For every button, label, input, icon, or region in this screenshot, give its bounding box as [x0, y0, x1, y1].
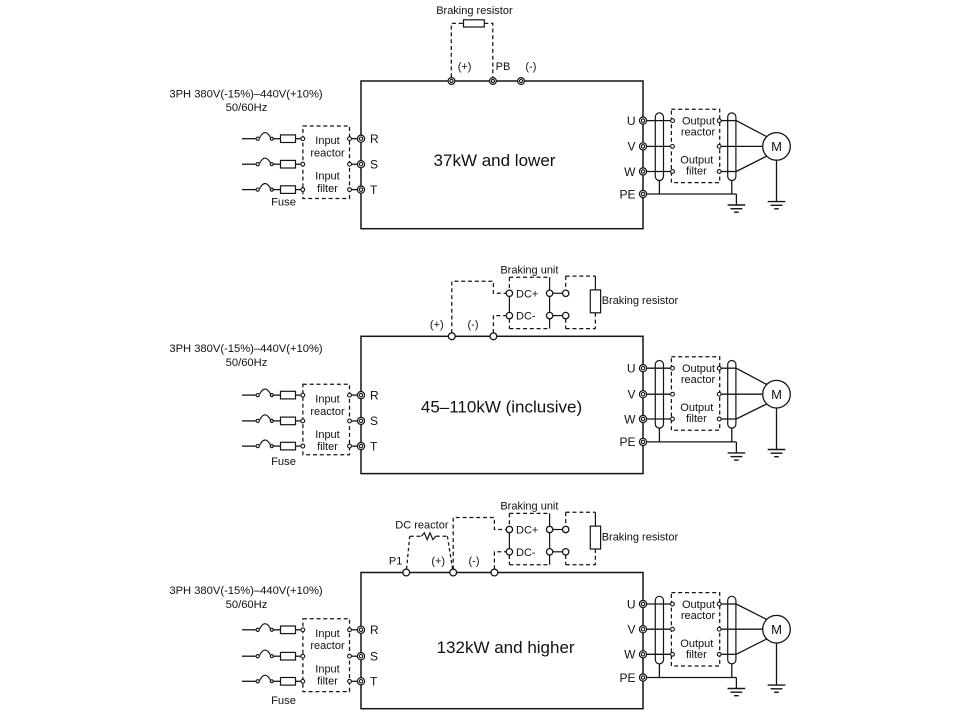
- wire PE bus (section 3): [647, 677, 737, 679]
- node output box right U (section 3): [717, 602, 721, 606]
- label Output reactor (section 2): [681, 363, 716, 386]
- svg-text:R: R: [370, 388, 379, 402]
- breaker contact left phase R (section 1): [256, 137, 259, 140]
- node reactor output phase R (section 3): [348, 628, 352, 632]
- wire reactor-to-terminal T (section 3): [351, 680, 357, 682]
- fuse phase R (section 2): [281, 391, 296, 399]
- braking resistor dashed box (section 3): [566, 512, 596, 565]
- dashed wire (-) to DC- (section 2): [493, 316, 506, 334]
- dashed wire (-) to DC- (section 3): [494, 552, 506, 570]
- wire reactor-to-terminal S (section 1): [351, 163, 357, 165]
- node output box left V (section 2): [671, 392, 675, 396]
- node output box right V (section 2): [717, 392, 721, 396]
- node braking unit DC- out (section 2): [546, 312, 552, 318]
- svg-text:filter: filter: [686, 166, 707, 178]
- braking resistor (section 2): [590, 290, 600, 313]
- fuse phase T (section 3): [281, 678, 296, 686]
- wire breaker-to-fuse phase R (section 1): [273, 138, 280, 140]
- svg-text:3PH 380V(-15%)–440V(+10%): 3PH 380V(-15%)–440V(+10%): [169, 343, 323, 355]
- svg-text:(-): (-): [469, 555, 480, 567]
- breaker blade arc phase T (section 1): [260, 183, 271, 188]
- wire W terminal to output reactor (section 1): [647, 171, 671, 173]
- wire breaker-to-fuse phase T (section 3): [273, 680, 280, 682]
- breaker contact right phase S (section 1): [270, 163, 273, 166]
- svg-text:reactor: reactor: [681, 610, 716, 622]
- terminal PE (section 2): [639, 438, 646, 445]
- breaker contact left phase T (section 2): [256, 445, 259, 448]
- shielded cable 1 (section 2): [655, 361, 663, 429]
- fuse phase S (section 1): [281, 160, 296, 168]
- wire supply phase S (section 2): [242, 420, 256, 422]
- svg-text:(-): (-): [468, 319, 479, 331]
- node output box right W (section 3): [717, 652, 721, 656]
- braking unit dashed box (section 3): [509, 513, 549, 564]
- wire cable 2 shield to PE (section 3): [731, 664, 733, 678]
- wire supply phase T (section 2): [242, 445, 256, 447]
- wire V output to motor (section 1): [721, 145, 763, 147]
- wire breaker-to-fuse phase R (section 2): [273, 394, 280, 396]
- wire reactor-to-terminal R (section 2): [351, 394, 357, 396]
- inverter box (section 2): [361, 336, 643, 473]
- breaker contact left phase R (section 3): [256, 628, 259, 631]
- wire fuse-to-reactor phase S (section 2): [296, 420, 302, 422]
- label Input reactor (section 1): [310, 135, 345, 159]
- wire V output to motor (section 2): [721, 393, 763, 395]
- label Output filter (section 2): [680, 402, 713, 425]
- node reactor input phase S (section 1): [301, 162, 305, 166]
- breaker blade arc phase S (section 2): [260, 415, 271, 420]
- wire diagonal W to motor (section 2): [736, 404, 767, 419]
- svg-text:PE: PE: [619, 187, 635, 201]
- svg-text:reactor: reactor: [681, 127, 716, 139]
- label Input filter (section 1): [315, 171, 339, 195]
- wire W output to cable 2 (section 1): [721, 171, 736, 173]
- svg-text:Input: Input: [315, 628, 339, 640]
- svg-text:T: T: [370, 439, 378, 453]
- fuse phase S (section 3): [281, 652, 296, 660]
- shielded cable 1 (section 1): [655, 113, 663, 181]
- breaker blade arc phase T (section 2): [260, 440, 271, 445]
- svg-text:filter: filter: [317, 183, 338, 195]
- label Output reactor (section 3): [681, 599, 716, 622]
- node reactor output phase S (section 1): [348, 162, 352, 166]
- wire fuse-to-reactor phase T (section 1): [296, 189, 302, 191]
- breaker contact left phase S (section 1): [256, 163, 259, 166]
- terminal U (section 1): [639, 117, 646, 124]
- node output box right U (section 2): [717, 366, 721, 370]
- node output box left W (section 1): [671, 170, 675, 174]
- svg-text:R: R: [370, 132, 379, 146]
- solid bus DC+ to DC- (section 3): [508, 533, 510, 549]
- svg-text:M: M: [771, 387, 782, 402]
- label Input filter (section 2): [315, 429, 339, 453]
- node reactor output phase S (section 3): [348, 654, 352, 658]
- breaker blade arc phase R (section 1): [260, 133, 271, 138]
- svg-text:W: W: [624, 165, 636, 179]
- braking unit right bus (section 3): [549, 513, 551, 564]
- node output box left U (section 1): [671, 119, 675, 123]
- node reactor output phase S (section 2): [348, 419, 352, 423]
- terminal R (section 2): [357, 392, 364, 399]
- wire breaker-to-fuse phase T (section 2): [273, 445, 280, 447]
- wire cable 2 shield to PE (section 1): [731, 181, 733, 195]
- wire supply phase R (section 2): [242, 394, 256, 396]
- svg-text:PB: PB: [496, 61, 511, 73]
- svg-text:DC+: DC+: [516, 525, 538, 537]
- svg-text:Fuse: Fuse: [271, 196, 296, 208]
- wire supply phase S (section 3): [242, 655, 256, 657]
- wire U terminal to output reactor (section 3): [647, 603, 671, 605]
- svg-text:Braking resistor: Braking resistor: [602, 295, 679, 307]
- solid bus DC+ to DC- (section 2): [508, 297, 510, 313]
- node braking unit DC- out (section 3): [546, 549, 552, 555]
- wire diagonal W to motor (section 3): [736, 639, 767, 654]
- terminal (-) (section 2): [490, 333, 497, 340]
- wire diagonal U to motor (section 1): [736, 121, 767, 137]
- svg-text:3PH 380V(-15%)–440V(+10%): 3PH 380V(-15%)–440V(+10%): [169, 89, 323, 101]
- wire fuse-to-reactor phase S (section 1): [296, 163, 302, 165]
- breaker blade arc phase T (section 3): [260, 675, 271, 680]
- node DC+ (section 3): [506, 526, 512, 532]
- svg-text:Input: Input: [315, 663, 339, 675]
- terminal PE (section 1): [639, 190, 646, 197]
- terminal R (section 3): [357, 626, 364, 633]
- svg-text:W: W: [624, 412, 636, 426]
- breaker contact left phase T (section 1): [256, 188, 259, 191]
- wire U output to cable 2 (section 3): [721, 603, 736, 605]
- svg-text:U: U: [627, 597, 636, 611]
- wire supply phase R (section 3): [242, 629, 256, 631]
- motor M (section 3): [763, 615, 791, 643]
- wire supply phase S (section 1): [242, 163, 256, 165]
- svg-text:3PH 380V(-15%)–440V(+10%): 3PH 380V(-15%)–440V(+10%): [169, 585, 323, 597]
- terminal R (section 1): [357, 135, 364, 142]
- node reactor input phase R (section 3): [301, 628, 305, 632]
- wire V terminal to output reactor (section 1): [647, 145, 671, 147]
- node output box left U (section 2): [671, 366, 675, 370]
- wire DC+ link (section 3): [553, 529, 563, 531]
- svg-text:50/60Hz: 50/60Hz: [226, 357, 268, 369]
- node braking unit DC+ out (section 2): [546, 290, 552, 296]
- wire supply phase R (section 1): [242, 138, 256, 140]
- terminal PE (section 3): [639, 674, 646, 681]
- wire DC+ link (section 2): [553, 292, 563, 294]
- terminal (-) (section 1): [518, 78, 525, 85]
- svg-text:37kW and lower: 37kW and lower: [434, 151, 556, 170]
- svg-text:(+): (+): [430, 319, 444, 331]
- wire motor to ground (section 1): [776, 160, 778, 201]
- node reactor output phase T (section 3): [348, 679, 352, 683]
- wire DC- link (section 2): [553, 315, 563, 317]
- wire W terminal to output reactor (section 3): [647, 653, 671, 655]
- breaker contact right phase T (section 3): [270, 680, 273, 683]
- wire U terminal to output reactor (section 1): [647, 120, 671, 122]
- input reactor / input filter dashed box (section 3): [303, 619, 350, 692]
- dashed wire (+) to DC+ (section 2): [452, 281, 506, 333]
- shielded cable 2 (section 3): [728, 596, 736, 664]
- wire fuse-to-reactor phase T (section 2): [296, 445, 302, 447]
- dashed wire (+) to braking resistor (section 1): [451, 23, 463, 77]
- node output box right V (section 1): [717, 145, 721, 149]
- node output box left U (section 3): [671, 602, 675, 606]
- braking resistor dashed box (section 2): [566, 276, 596, 329]
- wire reactor-to-terminal R (section 3): [351, 629, 357, 631]
- wire fuse-to-reactor phase R (section 2): [296, 394, 302, 396]
- wire resistor box top to braking resistor (section 3): [594, 512, 596, 526]
- wire diagonal U to motor (section 3): [736, 604, 767, 620]
- wire V terminal to output reactor (section 3): [647, 628, 671, 630]
- wire W terminal to output reactor (section 2): [647, 418, 671, 420]
- wire motor to ground (section 2): [776, 408, 778, 450]
- output reactor / output filter dashed box (section 3): [671, 593, 719, 666]
- breaker contact right phase R (section 1): [270, 137, 273, 140]
- svg-text:Input: Input: [315, 393, 339, 405]
- motor M (section 1): [763, 133, 791, 161]
- wire fuse-to-reactor phase R (section 1): [296, 138, 302, 140]
- wire breaker-to-fuse phase T (section 1): [273, 189, 280, 191]
- ground PE (section 2): [728, 453, 746, 460]
- terminal S (section 1): [357, 161, 364, 168]
- svg-text:DC-: DC-: [516, 547, 536, 559]
- node reactor output phase R (section 1): [348, 137, 352, 141]
- node reactor output phase R (section 2): [348, 393, 352, 397]
- wire fuse-to-reactor phase R (section 3): [296, 629, 302, 631]
- breaker contact right phase T (section 2): [270, 445, 273, 448]
- node output box left V (section 1): [671, 145, 675, 149]
- node output box right U (section 1): [717, 119, 721, 123]
- breaker contact left phase T (section 3): [256, 680, 259, 683]
- breaker contact left phase S (section 2): [256, 419, 259, 422]
- svg-text:filter: filter: [686, 413, 707, 425]
- label Input reactor (section 3): [310, 628, 345, 652]
- svg-text:50/60Hz: 50/60Hz: [226, 599, 268, 611]
- svg-text:Braking unit: Braking unit: [500, 501, 558, 513]
- node reactor output phase T (section 2): [348, 444, 352, 448]
- node DC- (section 3): [506, 549, 512, 555]
- wire reactor-to-terminal S (section 3): [351, 655, 357, 657]
- node reactor output phase T (section 1): [348, 188, 352, 192]
- breaker blade arc phase S (section 1): [260, 158, 271, 163]
- wire U output to cable 2 (section 2): [721, 367, 736, 369]
- terminal T (section 1): [357, 186, 364, 193]
- node reactor input phase T (section 3): [301, 679, 305, 683]
- svg-text:R: R: [370, 623, 379, 637]
- wire PE down to ground (section 1): [735, 194, 737, 205]
- node resistor box DC+ (section 2): [563, 290, 569, 296]
- svg-text:(+): (+): [431, 555, 445, 567]
- node output box left V (section 3): [671, 627, 675, 631]
- inverter box (section 3): [361, 573, 643, 709]
- shielded cable 1 (section 3): [655, 596, 663, 664]
- wire breaker-to-fuse phase S (section 3): [273, 655, 280, 657]
- node output box left W (section 3): [671, 652, 675, 656]
- terminal S (section 3): [357, 653, 364, 660]
- svg-text:Braking resistor: Braking resistor: [436, 5, 513, 17]
- fuse phase R (section 3): [281, 626, 296, 634]
- svg-text:filter: filter: [317, 441, 338, 453]
- wire cable 1 shield to PE (section 1): [658, 181, 660, 195]
- svg-text:filter: filter: [686, 649, 707, 661]
- svg-text:reactor: reactor: [310, 148, 345, 160]
- svg-text:U: U: [627, 362, 636, 376]
- svg-text:DC reactor: DC reactor: [395, 520, 449, 532]
- breaker blade arc phase R (section 3): [260, 624, 271, 629]
- svg-text:PE: PE: [619, 435, 635, 449]
- terminal (+) (section 1): [448, 78, 455, 85]
- svg-text:T: T: [370, 675, 378, 689]
- wire breaker-to-fuse phase S (section 1): [273, 163, 280, 165]
- input reactor / input filter dashed box (section 2): [303, 384, 350, 455]
- breaker contact left phase S (section 3): [256, 655, 259, 658]
- wire cable 1 shield to PE (section 3): [658, 664, 660, 678]
- svg-text:M: M: [771, 622, 782, 637]
- ground motor (section 2): [768, 450, 786, 457]
- svg-text:reactor: reactor: [310, 640, 345, 652]
- node resistor box DC+ (section 3): [563, 526, 569, 532]
- wire diagonal W to motor (section 1): [736, 156, 767, 171]
- wire cable 1 shield to PE (section 2): [658, 428, 660, 442]
- node resistor box DC- (section 3): [563, 549, 569, 555]
- wire cable 2 shield to PE (section 2): [731, 428, 733, 442]
- label Input reactor (section 2): [310, 393, 345, 417]
- inductor DC reactor (section 3): [422, 533, 436, 540]
- motor M (section 2): [763, 380, 791, 408]
- wire U terminal to output reactor (section 2): [647, 367, 671, 369]
- terminal W (section 1): [639, 168, 646, 175]
- fuse phase T (section 2): [281, 442, 296, 450]
- wire supply phase T (section 3): [242, 680, 256, 682]
- fuse phase T (section 1): [281, 186, 296, 194]
- terminal V (section 1): [639, 143, 646, 150]
- svg-text:reactor: reactor: [310, 406, 345, 418]
- wire PE down to ground (section 3): [735, 678, 737, 689]
- label Input filter (section 3): [315, 663, 339, 687]
- fuse phase S (section 2): [281, 417, 296, 425]
- braking resistor (section 1): [464, 20, 485, 27]
- wire PE bus (section 2): [647, 441, 737, 443]
- braking unit right bus (section 2): [549, 277, 551, 328]
- svg-text:DC+: DC+: [516, 288, 538, 300]
- svg-text:Input: Input: [315, 171, 339, 183]
- terminal (+) (section 3): [450, 569, 457, 576]
- svg-text:S: S: [370, 650, 378, 664]
- terminal W (section 3): [639, 651, 646, 658]
- ground PE (section 1): [728, 205, 746, 212]
- label Output filter (section 1): [680, 155, 713, 178]
- node reactor input phase T (section 2): [301, 444, 305, 448]
- svg-text:DC-: DC-: [516, 311, 536, 323]
- node output box right W (section 1): [717, 170, 721, 174]
- svg-text:V: V: [627, 388, 635, 402]
- wire breaker-to-fuse phase S (section 2): [273, 420, 280, 422]
- wire W output to cable 2 (section 3): [721, 653, 736, 655]
- wire resistor box top to braking resistor (section 2): [594, 276, 596, 290]
- svg-text:P1: P1: [389, 556, 402, 568]
- svg-text:T: T: [370, 183, 378, 197]
- svg-text:M: M: [771, 139, 782, 154]
- node braking unit DC+ out (section 3): [546, 526, 552, 532]
- terminal U (section 2): [639, 365, 646, 372]
- svg-text:reactor: reactor: [681, 374, 716, 386]
- wire PE down to ground (section 2): [735, 442, 737, 453]
- svg-text:45–110kW (inclusive): 45–110kW (inclusive): [421, 398, 582, 417]
- svg-text:50/60Hz: 50/60Hz: [226, 102, 268, 114]
- wire V output to motor (section 3): [721, 628, 763, 630]
- terminal PB (section 1): [490, 78, 497, 85]
- output reactor / output filter dashed box (section 2): [671, 357, 719, 430]
- breaker contact right phase S (section 3): [270, 655, 273, 658]
- terminal P1 (section 3): [403, 569, 410, 576]
- terminal U (section 3): [639, 600, 646, 607]
- svg-text:132kW and higher: 132kW and higher: [437, 638, 575, 657]
- svg-text:filter: filter: [317, 676, 338, 688]
- breaker blade arc phase S (section 3): [260, 650, 271, 655]
- shielded cable 2 (section 1): [728, 113, 736, 181]
- svg-text:(+): (+): [458, 61, 472, 73]
- node output box right W (section 2): [717, 417, 721, 421]
- terminal W (section 2): [639, 415, 646, 422]
- wire reactor-to-terminal T (section 2): [351, 445, 357, 447]
- svg-text:S: S: [370, 414, 378, 428]
- node DC+ (section 2): [506, 290, 512, 296]
- breaker blade arc phase R (section 2): [260, 389, 271, 394]
- label Output filter (section 3): [680, 638, 713, 661]
- wire U output to cable 2 (section 1): [721, 120, 736, 122]
- wire W output to cable 2 (section 2): [721, 418, 736, 420]
- input reactor / input filter dashed box (section 1): [303, 126, 350, 199]
- node reactor input phase S (section 3): [301, 654, 305, 658]
- braking unit dashed box (section 2): [509, 277, 549, 328]
- wire PE bus (section 1): [647, 193, 737, 195]
- svg-text:Braking resistor: Braking resistor: [602, 531, 679, 543]
- terminal (-) (section 3): [491, 569, 498, 576]
- ground PE (section 3): [728, 689, 746, 696]
- dashed wire (+) to DC+ (section 3): [453, 518, 506, 570]
- svg-text:Braking unit: Braking unit: [500, 264, 558, 276]
- wire breaker-to-fuse phase R (section 3): [273, 629, 280, 631]
- dashed wire braking resistor to PB (section 1): [484, 23, 493, 77]
- svg-text:PE: PE: [619, 671, 635, 685]
- wire DC- link (section 3): [553, 551, 563, 553]
- node output box left W (section 2): [671, 417, 675, 421]
- wire V terminal to output reactor (section 2): [647, 393, 671, 395]
- terminal S (section 2): [357, 417, 364, 424]
- wire reactor-to-terminal T (section 1): [351, 189, 357, 191]
- shielded cable 2 (section 2): [728, 361, 736, 429]
- wire fuse-to-reactor phase T (section 3): [296, 680, 302, 682]
- wire motor to ground (section 3): [776, 643, 778, 685]
- node DC- (section 2): [506, 312, 512, 318]
- svg-text:S: S: [370, 158, 378, 172]
- breaker contact right phase T (section 1): [270, 188, 273, 191]
- node reactor input phase S (section 2): [301, 419, 305, 423]
- terminal V (section 2): [639, 391, 646, 398]
- svg-text:U: U: [627, 114, 636, 128]
- inverter box (section 1): [361, 81, 643, 229]
- node reactor input phase R (section 1): [301, 137, 305, 141]
- ground motor (section 1): [768, 202, 786, 209]
- wire fuse-to-reactor phase S (section 3): [296, 655, 302, 657]
- label Output reactor (section 1): [681, 116, 716, 139]
- braking resistor (section 3): [590, 526, 600, 549]
- svg-text:Input: Input: [315, 135, 339, 147]
- terminal T (section 3): [357, 678, 364, 685]
- svg-text:Input: Input: [315, 429, 339, 441]
- fuse phase R (section 1): [281, 135, 296, 143]
- ground motor (section 3): [768, 685, 786, 692]
- output reactor / output filter dashed box (section 1): [671, 109, 719, 182]
- dashed wire DC reactor to (+) (section 3): [436, 536, 453, 569]
